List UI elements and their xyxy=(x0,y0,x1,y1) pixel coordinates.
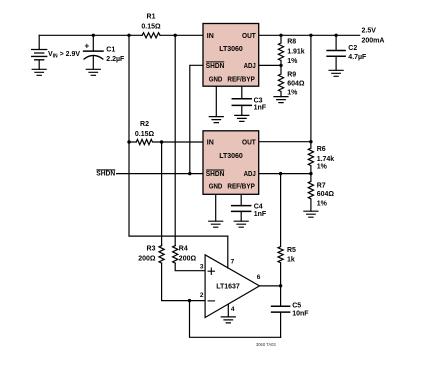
svg-text:2.2µF: 2.2µF xyxy=(106,56,125,63)
svg-text:R1: R1 xyxy=(147,14,156,21)
node R8 bottom ADJ1 xyxy=(279,64,282,67)
label R1 xyxy=(141,14,161,31)
label R3 xyxy=(138,246,156,263)
svg-text:1%: 1% xyxy=(287,90,298,97)
capacitor C3 xyxy=(232,86,251,115)
svg-text:GND: GND xyxy=(209,76,223,83)
label R6 xyxy=(317,146,335,171)
label C3 xyxy=(254,97,267,111)
svg-text:4: 4 xyxy=(231,306,235,313)
svg-text:1nF: 1nF xyxy=(254,105,267,112)
svg-text:0.15Ω: 0.15Ω xyxy=(135,131,155,138)
label R8 xyxy=(287,38,305,65)
svg-text:REF/BYP: REF/BYP xyxy=(227,184,255,191)
resistor R1 xyxy=(142,33,160,38)
svg-text:200Ω: 200Ω xyxy=(138,255,156,262)
pin number 4 xyxy=(231,306,235,313)
pin number 7 xyxy=(231,258,235,265)
svg-text:2: 2 xyxy=(200,292,204,299)
wire pin4 xyxy=(227,304,229,317)
node op-amp output xyxy=(279,284,282,287)
svg-text:GND: GND xyxy=(209,184,223,191)
label C1 plus xyxy=(85,42,90,51)
wire R1 output to R4 xyxy=(175,35,205,270)
svg-text:IN: IN xyxy=(207,140,214,147)
label C5 xyxy=(292,303,309,318)
resistor R6 xyxy=(308,142,313,174)
svg-text:1.91k: 1.91k xyxy=(287,49,305,56)
ground C2 xyxy=(329,70,343,76)
wire pin6 output xyxy=(260,285,281,287)
capacitor C1 xyxy=(84,35,103,69)
svg-text:R3: R3 xyxy=(147,246,156,253)
wire R2 output to R3 xyxy=(162,142,206,301)
svg-text:0.15Ω: 0.15Ω xyxy=(141,24,161,31)
node R1 left xyxy=(127,34,130,37)
node OUT rail mid xyxy=(309,34,312,37)
regulator U1 LT3060 xyxy=(203,24,259,87)
svg-text:C1: C1 xyxy=(106,47,115,54)
svg-text:ADJ: ADJ xyxy=(244,63,256,70)
resistor R9 xyxy=(278,65,283,96)
battery VIN xyxy=(32,35,47,69)
node R2 right xyxy=(160,140,163,143)
label R4 xyxy=(179,246,197,263)
capacitor C2 xyxy=(327,35,345,70)
resistor R7 xyxy=(308,174,313,212)
svg-text:OUT: OUT xyxy=(242,140,256,147)
wire feedback bottom xyxy=(190,301,281,338)
wire VIN vertical branch xyxy=(129,35,228,236)
U2 pin labels xyxy=(206,140,257,191)
svg-text:R6: R6 xyxy=(317,146,326,153)
svg-text:4.7µF: 4.7µF xyxy=(348,54,367,61)
svg-text:+: + xyxy=(85,42,90,51)
ground C4 xyxy=(234,221,248,227)
node R6 bottom ADJ2 xyxy=(309,172,312,175)
resistor R3 xyxy=(159,246,164,264)
svg-text:1nF: 1nF xyxy=(254,211,267,218)
svg-text:1%: 1% xyxy=(287,58,298,65)
pin number 2 xyxy=(200,292,204,299)
svg-text:LT3060: LT3060 xyxy=(219,46,243,53)
svg-text:604Ω: 604Ω xyxy=(317,191,335,198)
ground R7 xyxy=(304,211,318,217)
pin number 3 xyxy=(200,263,204,270)
resistor R4 xyxy=(173,246,178,264)
svg-text:ADJ: ADJ xyxy=(244,171,256,178)
resistor R5 xyxy=(278,174,283,286)
resistor R2 xyxy=(129,139,203,144)
op-amp plus symbol xyxy=(208,268,214,274)
ground op-amp pin4 xyxy=(221,317,235,323)
label C4 xyxy=(254,203,267,218)
svg-text:LT1637: LT1637 xyxy=(216,283,240,290)
svg-text:R2: R2 xyxy=(140,121,149,128)
svg-text:1k: 1k xyxy=(287,257,295,264)
op-amp minus symbol xyxy=(208,300,214,302)
node R1 right xyxy=(174,34,177,37)
wire SHDN net xyxy=(117,65,203,173)
svg-text:6: 6 xyxy=(257,274,261,281)
svg-text:SHDN: SHDN xyxy=(206,171,225,178)
svg-text:1.74k: 1.74k xyxy=(317,156,335,163)
svg-text:200Ω: 200Ω xyxy=(179,255,197,262)
label SHDN net xyxy=(96,170,115,178)
resistor R8 xyxy=(278,35,283,65)
svg-text:200mA: 200mA xyxy=(362,37,385,44)
ground C3 xyxy=(235,115,249,121)
svg-text:R8: R8 xyxy=(287,38,296,45)
U1 pin labels xyxy=(206,33,257,83)
label C1 xyxy=(106,47,125,64)
node VIN-C1 xyxy=(92,34,95,37)
label figure number xyxy=(256,342,276,347)
svg-text:R7: R7 xyxy=(317,183,326,190)
svg-text:1%: 1% xyxy=(317,201,328,208)
svg-text:7: 7 xyxy=(231,258,235,265)
node C2 top xyxy=(334,34,337,37)
svg-text:604Ω: 604Ω xyxy=(287,81,305,88)
svg-text:R9: R9 xyxy=(287,72,296,79)
svg-text:3: 3 xyxy=(200,263,204,270)
svg-text:3060 TA03: 3060 TA03 xyxy=(256,342,276,347)
svg-text:IN: IN xyxy=(207,33,214,40)
wire OUT1 rail xyxy=(259,34,360,36)
svg-text:SHDN: SHDN xyxy=(206,63,225,70)
label U3 LT1637 xyxy=(216,283,240,290)
pin number 6 xyxy=(257,274,261,281)
ground U2 GND xyxy=(209,221,223,227)
ground R9 xyxy=(274,97,288,103)
svg-text:REF/BYP: REF/BYP xyxy=(227,76,255,83)
svg-text:SHDN: SHDN xyxy=(96,171,115,178)
wire U1 GND stub xyxy=(215,86,217,116)
svg-text:2.5V: 2.5V xyxy=(362,28,377,35)
label output xyxy=(362,28,385,45)
wire top rail VIN xyxy=(39,34,203,36)
svg-text:C5: C5 xyxy=(292,303,301,310)
node R5 top xyxy=(279,172,282,175)
node R6 top xyxy=(309,140,312,143)
capacitor C5 xyxy=(272,286,290,338)
svg-text:LT3060: LT3060 xyxy=(219,153,243,160)
ground U1 GND xyxy=(209,117,223,123)
node inverting input xyxy=(188,299,191,302)
ground battery xyxy=(32,69,46,75)
wire pin7 xyxy=(227,236,229,268)
svg-text:C3: C3 xyxy=(254,97,263,104)
label VIN xyxy=(48,51,80,60)
node SHDN junction xyxy=(188,172,191,175)
svg-text:10nF: 10nF xyxy=(292,311,309,318)
op-amp U3 LT1637 xyxy=(205,255,259,318)
svg-text:C4: C4 xyxy=(254,203,263,210)
node R2 left xyxy=(127,140,130,143)
regulator U2 LT3060 xyxy=(203,131,259,195)
wire ADJ1 xyxy=(259,64,281,66)
svg-text:OUT: OUT xyxy=(242,33,256,40)
svg-text:VIN > 2.9V: VIN > 2.9V xyxy=(48,51,80,60)
svg-text:C2: C2 xyxy=(348,45,357,52)
svg-text:R4: R4 xyxy=(179,246,188,253)
label R9 xyxy=(287,72,305,97)
ground C1 xyxy=(86,69,100,75)
label R5 xyxy=(287,247,296,264)
wire U2 GND stub xyxy=(215,194,217,221)
wire ADJ2 xyxy=(259,173,311,175)
wire OUT1 to OUT2 vertical xyxy=(310,35,312,141)
label C2 xyxy=(348,45,367,61)
label R2 xyxy=(135,121,155,138)
capacitor C4 xyxy=(232,194,251,221)
wire OUT2 xyxy=(259,141,311,143)
svg-text:R5: R5 xyxy=(287,247,296,254)
svg-text:1%: 1% xyxy=(317,164,328,171)
node R8 top xyxy=(279,34,282,37)
label R7 xyxy=(317,183,335,208)
